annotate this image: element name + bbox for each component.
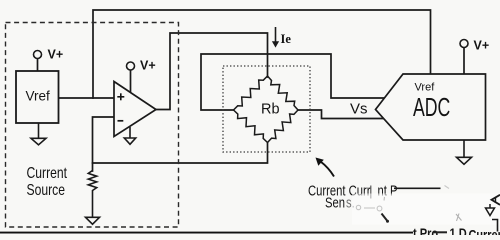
svg-text:Current r: Current r (469, 227, 500, 235)
bottom separator bar (0, 232, 413, 234)
wire op-amp inverting input to sense node (93, 117, 115, 171)
wire top feedback/reference rail y=10 (93, 10, 431, 98)
wire fragment right edge triangle (492, 195, 500, 205)
svg-text:Current: Current (27, 164, 68, 182)
V+ terminal of Vref (34, 51, 42, 59)
ADC U3 (376, 74, 486, 140)
wire fragment right corner (492, 220, 498, 232)
ground below resistor R1 (86, 217, 100, 224)
svg-text:Vref: Vref (26, 89, 51, 104)
current arrow Ie (272, 27, 279, 48)
wire V+ stem above Vref box (37, 59, 39, 72)
bridge resistor Rb arm bottom-left (234, 110, 268, 143)
wire bridge right node to ADC lower input (298, 110, 394, 119)
wire Vref output to op-amp non-inverting input (59, 97, 115, 99)
svg-text:Sen: Sen (325, 194, 345, 211)
dark pen stroke fragment (382, 214, 388, 221)
bridge dotted box (223, 66, 310, 152)
ground below Vref box (31, 123, 46, 145)
op-amp minus input marking (118, 120, 124, 122)
white overlay patch (352, 194, 500, 225)
stray line fragment (394, 187, 441, 189)
svg-text:V+: V+ (140, 59, 156, 73)
V+ terminal of op-amp (127, 62, 135, 70)
faint scribble marks (356, 205, 382, 211)
svg-text:V+: V+ (474, 39, 490, 53)
svg-text:Source: Source (27, 181, 66, 199)
wire bridge left node to ADC upper input (201, 54, 388, 110)
Vref box U1 (16, 71, 59, 123)
bridge resistor Rb arm top-left (234, 76, 268, 110)
annotation arrow to bridge box (316, 158, 335, 177)
ground fragment right edge (486, 204, 495, 216)
wire bridge bottom return to sense resistor node (93, 143, 268, 164)
current source outer dashed box (6, 23, 179, 228)
svg-text:Ie: Ie (281, 32, 292, 46)
svg-text:1 D: 1 D (450, 226, 467, 235)
wire V+ stem above op-amp (130, 71, 132, 93)
svg-text:t Pro: t Pro (413, 226, 439, 235)
wire V+ stem above ADC (463, 48, 465, 75)
ground below op-amp (124, 127, 135, 144)
bridge resistor Rb arm top-right (268, 76, 299, 110)
svg-text:V+: V+ (48, 48, 64, 62)
resistor R1 (sense resistor) (88, 171, 96, 218)
svg-text:ADC: ADC (413, 93, 450, 122)
op-amp plus input marking (117, 93, 124, 100)
bridge resistor Rb arm bottom-right (268, 110, 299, 143)
op-amp U2 (114, 82, 156, 137)
wire op-amp output to bridge top (156, 33, 268, 110)
ground below ADC (457, 140, 472, 164)
svg-text:Rb: Rb (261, 102, 280, 118)
V+ terminal of ADC (460, 40, 468, 48)
svg-text:Vs: Vs (350, 101, 368, 118)
